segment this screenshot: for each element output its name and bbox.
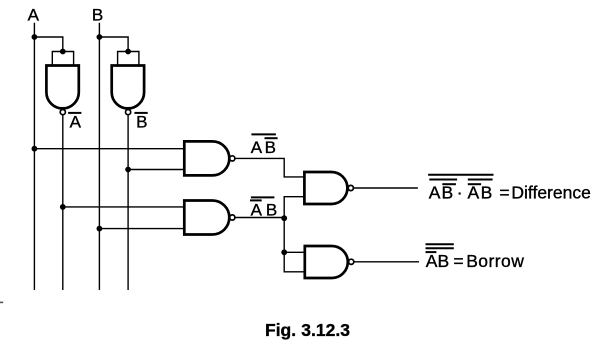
svg-text:=: = bbox=[453, 251, 463, 271]
svg-text:B: B bbox=[265, 138, 276, 157]
wire: Abar vertical rail bbox=[62, 115, 64, 290]
stray margin tick bbox=[0, 301, 3, 303]
wire: node N2 down and to U6 bottom input bbox=[284, 252, 305, 271]
svg-text:·: · bbox=[457, 183, 463, 203]
NAND gate U6 (Borrow) body bbox=[305, 246, 348, 278]
NAND inverter U1 (A) body bbox=[46, 66, 78, 109]
wire: A rail to U3 top input bbox=[34, 148, 184, 150]
NAND gate U3 (A·Bbar) body bbox=[184, 141, 229, 175]
wire: A branch to inverter U1 inputs bbox=[34, 37, 62, 52]
svg-text:B: B bbox=[442, 183, 454, 203]
svg-text:A: A bbox=[426, 251, 438, 271]
wire: B branch to inverter U2 inputs bbox=[99, 37, 128, 52]
net label NAND(Abar,B) bbox=[250, 197, 277, 219]
svg-text:B: B bbox=[92, 6, 103, 25]
wire: input B vertical rail bbox=[98, 23, 100, 290]
output label Borrow equation bbox=[426, 244, 525, 271]
node: junction on B rail feeding U4 bbox=[97, 226, 103, 232]
svg-text:A: A bbox=[251, 200, 263, 219]
wire: B rail to U4 bottom input bbox=[99, 228, 184, 230]
svg-text:A: A bbox=[429, 183, 441, 203]
svg-text:B: B bbox=[266, 200, 277, 219]
NAND gate U5 (Difference) body bbox=[304, 172, 347, 204]
node: junction on Abar rail feeding U4 bbox=[60, 204, 66, 210]
node N2: borrow branch junction bbox=[281, 249, 287, 255]
NAND inverter U2 (B) body bbox=[112, 66, 144, 109]
svg-text:A: A bbox=[28, 6, 40, 25]
node: U1 tied-input junction bbox=[60, 49, 66, 55]
NAND inverter U2 output bubble bbox=[126, 110, 131, 115]
caption Fig. 3.12.3 bbox=[265, 320, 350, 340]
node: U2 tied-input junction bbox=[125, 49, 131, 55]
wire: input A vertical rail bbox=[33, 23, 35, 290]
node: junction on A rail at branch to U1 bbox=[32, 34, 38, 40]
node: junction on B rail at branch to U2 bbox=[97, 34, 103, 40]
wire: U2 tied-input bracket bbox=[118, 52, 139, 66]
svg-text:A: A bbox=[70, 113, 82, 132]
svg-text:=: = bbox=[499, 183, 509, 203]
node: junction on A rail feeding U3 bbox=[32, 146, 38, 152]
wire: node N1 up to U5 bottom input bbox=[284, 197, 304, 218]
wire: U1 tied-input bracket bbox=[52, 52, 73, 66]
NAND gate U4 (Abar·B) body bbox=[184, 201, 229, 235]
svg-text:Difference: Difference bbox=[511, 183, 590, 203]
output label Difference equation bbox=[428, 175, 591, 203]
wire: U3 output to U5 top input bbox=[235, 158, 304, 177]
NAND gate U3 output bubble bbox=[230, 156, 235, 161]
NAND gate U4 output bubble bbox=[230, 215, 235, 220]
svg-text:Borrow: Borrow bbox=[466, 251, 524, 271]
wire: Abar rail to U4 top input bbox=[63, 206, 185, 208]
NAND gate U6 output bubble bbox=[349, 259, 354, 264]
svg-text:3.12.3: 3.12.3 bbox=[301, 320, 350, 340]
wire: node N1 down to node N2 bbox=[283, 218, 285, 252]
net label Abar bbox=[68, 113, 82, 132]
svg-text:B: B bbox=[438, 251, 450, 271]
svg-text:Fig.: Fig. bbox=[265, 320, 296, 340]
net label NAND(A,Bbar) bbox=[251, 134, 278, 157]
svg-text:A: A bbox=[468, 183, 480, 203]
wire: Bbar vertical rail bbox=[127, 115, 129, 290]
wire: Bbar rail to U3 bottom input bbox=[128, 169, 184, 171]
svg-text:B: B bbox=[136, 113, 147, 132]
svg-text:B: B bbox=[481, 183, 493, 203]
wire: U5 output (Difference) bbox=[354, 187, 418, 189]
NAND inverter U1 output bubble bbox=[60, 110, 65, 115]
wire: U4 output to node N1 bbox=[235, 217, 284, 219]
net label Bbar bbox=[134, 113, 147, 132]
node: junction on Bbar rail feeding U3 bbox=[125, 167, 131, 173]
svg-text:A: A bbox=[251, 138, 263, 157]
NAND gate U5 output bubble bbox=[348, 185, 353, 190]
node N1: U4 output junction bbox=[281, 215, 287, 221]
wire: node N2 to U6 top input bbox=[284, 251, 305, 253]
wire: U6 output (Borrow) bbox=[354, 261, 419, 263]
